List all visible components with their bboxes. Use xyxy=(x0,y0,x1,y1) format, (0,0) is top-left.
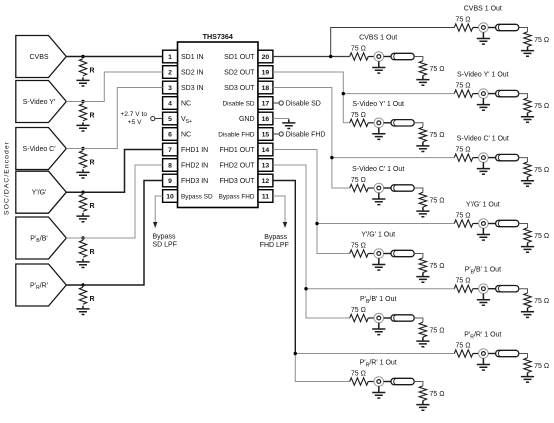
resistor R (CVBS input termination) xyxy=(79,59,86,76)
wire cable to load (inner S-Video C' 1 Out) xyxy=(414,188,423,192)
wire pin 18 to S-Video C' 1 Out branch xyxy=(273,88,332,158)
wire connector to cable (inner Y'/G' 1 Out) xyxy=(384,253,391,255)
connector jack (inner Y'/G' 1 Out) xyxy=(374,249,384,259)
svg-text:R: R xyxy=(90,113,95,120)
ground (load outer CVBS 1 Out) xyxy=(521,47,534,57)
svg-text:+5 V: +5 V xyxy=(128,119,142,126)
ground (load outer Y'/G' 1 Out) xyxy=(521,243,534,253)
ground (load inner P'R/R' 1 Out) xyxy=(416,401,429,411)
resistor 75 Ohm series (inner Y'/G' 1 Out) xyxy=(350,250,369,257)
wire resistor to connector (outer CVBS 1 Out) xyxy=(473,27,479,29)
svg-text:SD2 IN: SD2 IN xyxy=(181,70,204,77)
wire connector to cable (inner P'B/B' 1 Out) xyxy=(384,317,391,319)
svg-text:CVBS 1 Out: CVBS 1 Out xyxy=(464,6,502,13)
svg-text:15: 15 xyxy=(262,132,270,139)
svg-text:75 Ω: 75 Ω xyxy=(351,371,366,378)
wire pin 12 to P'R/R' 1 Out branch xyxy=(273,181,295,354)
resistor R (S-Video Y' input termination) xyxy=(79,104,86,121)
wire cable to load (inner CVBS 1 Out) xyxy=(414,57,423,61)
svg-text:20: 20 xyxy=(262,54,270,61)
resistor R (S-Video C' input termination) xyxy=(79,151,86,168)
svg-text:Y′/G′: Y′/G′ xyxy=(32,190,47,197)
power supply node +2.7V to +5V xyxy=(151,116,155,120)
wire pin 10 Bypass SD LPF arrow xyxy=(155,196,162,223)
svg-text:NC: NC xyxy=(181,101,191,108)
node branch P'R/R' 1 Out xyxy=(294,352,297,355)
svg-text:13: 13 xyxy=(262,163,270,170)
svg-text:75 Ω: 75 Ω xyxy=(534,363,549,370)
wire inner feed P'B/B' 1 Out xyxy=(306,289,350,318)
connector jack (outer P'B/B' 1 Out) xyxy=(479,284,489,294)
resistor 75 Ohm series (outer Y'/G' 1 Out) xyxy=(454,220,473,227)
connector jack (outer P'R/R' 1 Out) xyxy=(479,349,489,359)
svg-text:11: 11 xyxy=(262,194,269,201)
resistor 75 Ohm series (inner S-Video Y' 1 Out) xyxy=(350,119,369,126)
svg-text:3: 3 xyxy=(168,85,172,92)
svg-text:SD LPF: SD LPF xyxy=(153,241,178,248)
svg-text:7: 7 xyxy=(168,147,172,154)
wire connector to cable (outer P'R/R' 1 Out) xyxy=(488,353,495,355)
wire pin 14 to Y'/G' 1 Out branch xyxy=(273,150,317,224)
svg-text:FHD3 OUT: FHD3 OUT xyxy=(220,178,256,185)
ground (S-Video Y' input termination) xyxy=(76,122,89,131)
wire connector to cable (outer S-Video Y' 1 Out) xyxy=(488,93,495,95)
svg-text:S-Video C′: S-Video C′ xyxy=(22,146,56,153)
DAC output pentagon S-Video Y' xyxy=(16,81,67,123)
DAC output pentagon P'B/B' xyxy=(16,217,67,259)
resistor 75 Ohm load (inner S-Video Y' 1 Out) xyxy=(419,127,426,142)
pin 8 box (FHD2 IN) xyxy=(163,159,178,172)
connector jack (outer Y'/G' 1 Out) xyxy=(479,219,489,229)
resistor 75 Ohm load (inner S-Video C' 1 Out) xyxy=(419,192,426,207)
svg-text:19: 19 xyxy=(262,70,270,77)
svg-text:75 Ω: 75 Ω xyxy=(456,147,471,154)
wire resistor to connector (outer S-Video C' 1 Out) xyxy=(473,157,479,159)
Disable FHD terminal circle xyxy=(279,132,283,136)
wire cable to load (outer CVBS 1 Out) xyxy=(519,28,528,32)
wire inner feed P'R/R' 1 Out xyxy=(295,354,349,382)
svg-text:Y′/G′ 1 Out: Y′/G′ 1 Out xyxy=(361,232,395,239)
wire outer feed S-Video C' 1 Out xyxy=(332,157,454,159)
svg-text:S-Video C′ 1 Out: S-Video C′ 1 Out xyxy=(457,136,509,143)
svg-text:SD3 IN: SD3 IN xyxy=(181,85,204,92)
wire pin 15 to Disable FHD terminal xyxy=(273,133,279,135)
svg-text:GND: GND xyxy=(239,116,255,123)
pin 13 box (FHD2 OUT) xyxy=(258,159,273,172)
coax cable (outer S-Video C' 1 Out) xyxy=(496,154,519,160)
wire resistor to connector (inner S-Video C' 1 Out) xyxy=(368,187,374,189)
ground (connector shield inner Y'/G' 1 Out) xyxy=(372,258,385,270)
ground (connector shield inner P'R/R' 1 Out) xyxy=(372,386,385,398)
svg-text:FHD2 IN: FHD2 IN xyxy=(181,163,208,170)
svg-text:75 Ω: 75 Ω xyxy=(351,112,366,119)
connector jack (inner P'B/B' 1 Out) xyxy=(374,313,384,323)
DAC output pentagon Y'/G' xyxy=(16,171,67,213)
resistor 75 Ohm load (outer P'R/R' 1 Out) xyxy=(524,358,531,373)
resistor 75 Ohm load (inner Y'/G' 1 Out) xyxy=(419,258,426,273)
wire inner feed S-Video Y' 1 Out xyxy=(343,94,349,123)
ground (connector shield outer Y'/G' 1 Out) xyxy=(477,228,490,240)
resistor 75 Ohm series (inner S-Video C' 1 Out) xyxy=(350,184,369,191)
wire resistor to connector (inner P'R/R' 1 Out) xyxy=(368,381,374,383)
wire cable to load (outer Y'/G' 1 Out) xyxy=(519,224,528,228)
svg-text:5: 5 xyxy=(168,116,172,123)
node Y'/G' junction xyxy=(81,191,84,194)
pin 11 box (Bypass FHD) xyxy=(258,190,273,203)
wire outer feed S-Video Y' 1 Out xyxy=(343,93,454,95)
svg-text:10: 10 xyxy=(166,194,174,201)
ground (load inner P'B/B' 1 Out) xyxy=(416,337,429,347)
svg-text:Y′/G′ 1 Out: Y′/G′ 1 Out xyxy=(466,202,500,209)
svg-text:SOC/DAC/Encoder: SOC/DAC/Encoder xyxy=(4,141,11,215)
connector jack (outer CVBS 1 Out) xyxy=(479,23,489,33)
DAC output pentagon P'R/R' xyxy=(16,264,67,306)
resistor 75 Ohm load (inner P'R/R' 1 Out) xyxy=(419,386,426,401)
svg-text:Disable SD: Disable SD xyxy=(286,101,321,108)
node P'R/R' junction xyxy=(81,283,84,286)
wire pin 17 to Disable SD terminal xyxy=(273,102,279,104)
wire cable to load (outer S-Video Y' 1 Out) xyxy=(519,94,528,98)
wire cable to load (outer S-Video C' 1 Out) xyxy=(519,158,528,162)
wire S-Video Y' to pin 2 xyxy=(66,72,162,102)
svg-text:FHD LPF: FHD LPF xyxy=(260,242,289,249)
coax cable (inner P'B/B' 1 Out) xyxy=(391,315,414,321)
ground (connector shield inner S-Video Y' 1 Out) xyxy=(372,128,385,140)
ground (P'B/B' input termination) xyxy=(76,259,89,268)
wire pin 20 to CVBS 1 Out branch xyxy=(273,56,350,58)
svg-text:R: R xyxy=(90,160,95,167)
wire connector to cable (outer S-Video C' 1 Out) xyxy=(488,157,495,159)
svg-text:R: R xyxy=(90,296,95,303)
resistor 75 Ohm load (outer S-Video C' 1 Out) xyxy=(524,162,531,177)
pin 3 box (SD3 IN) xyxy=(163,81,178,94)
ground (load outer S-Video Y' 1 Out) xyxy=(521,113,534,123)
wire resistor to connector (outer P'B/B' 1 Out) xyxy=(473,288,479,290)
svg-text:S-Video Y′ 1 Out: S-Video Y′ 1 Out xyxy=(352,101,404,108)
svg-text:FHD1 OUT: FHD1 OUT xyxy=(220,147,256,154)
wire cable to load (inner Y'/G' 1 Out) xyxy=(414,254,423,258)
svg-text:SD3 OUT: SD3 OUT xyxy=(224,85,255,92)
ground (connector shield outer P'B/B' 1 Out) xyxy=(477,294,490,306)
wire CVBS to pin 1 xyxy=(66,56,162,58)
ground (GND pin 16) xyxy=(282,120,295,129)
resistor 75 Ohm load (outer S-Video Y' 1 Out) xyxy=(524,98,531,113)
pin 19 box (SD2 OUT) xyxy=(258,66,273,79)
coax cable (outer CVBS 1 Out) xyxy=(496,24,519,30)
coax cable (inner S-Video C' 1 Out) xyxy=(391,185,414,191)
svg-text:2: 2 xyxy=(168,70,172,77)
wire cable to load (inner P'R/R' 1 Out) xyxy=(414,382,423,386)
resistor 75 Ohm series (inner P'R/R' 1 Out) xyxy=(350,378,369,385)
coax cable (outer S-Video Y' 1 Out) xyxy=(496,90,519,96)
resistor 75 Ohm series (outer CVBS 1 Out) xyxy=(454,24,473,31)
resistor R (Y'/G' input termination) xyxy=(79,194,86,211)
svg-text:SD1 OUT: SD1 OUT xyxy=(224,54,255,61)
ground (load inner Y'/G' 1 Out) xyxy=(416,273,429,283)
svg-text:1: 1 xyxy=(168,54,172,61)
pin 14 box (FHD1 OUT) xyxy=(258,143,273,156)
svg-text:12: 12 xyxy=(262,178,270,185)
wire outer feed Y'/G' 1 Out xyxy=(317,223,454,225)
connector jack (outer S-Video C' 1 Out) xyxy=(479,153,489,163)
ground (load inner S-Video C' 1 Out) xyxy=(416,207,429,217)
pin 1 box (SD1 IN) xyxy=(163,50,178,63)
svg-text:75 Ω: 75 Ω xyxy=(351,46,366,53)
coax cable (outer P'R/R' 1 Out) xyxy=(496,350,519,356)
ground (connector shield outer S-Video C' 1 Out) xyxy=(477,162,490,174)
pin 6 box (NC) xyxy=(163,128,178,141)
svg-text:SD2 OUT: SD2 OUT xyxy=(224,70,255,77)
wire resistor to connector (outer S-Video Y' 1 Out) xyxy=(473,93,479,95)
svg-text:75 Ω: 75 Ω xyxy=(456,83,471,90)
svg-text:+2.7 V to: +2.7 V to xyxy=(120,111,147,118)
pin 12 box (FHD3 OUT) xyxy=(258,174,273,187)
connector jack (outer S-Video Y' 1 Out) xyxy=(479,89,489,99)
svg-text:17: 17 xyxy=(262,101,270,108)
svg-text:Bypass: Bypass xyxy=(153,234,176,241)
wire connector to cable (inner S-Video C' 1 Out) xyxy=(384,187,391,189)
ground (load inner S-Video Y' 1 Out) xyxy=(416,142,429,152)
svg-text:75 Ω: 75 Ω xyxy=(534,298,549,305)
svg-text:75 Ω: 75 Ω xyxy=(351,177,366,184)
wire resistor to connector (inner Y'/G' 1 Out) xyxy=(368,253,374,255)
resistor 75 Ohm series (outer P'B/B' 1 Out) xyxy=(454,285,473,292)
pin 15 box (Disable FHD) xyxy=(258,128,273,141)
ground (connector shield outer CVBS 1 Out) xyxy=(477,32,490,44)
ground (load outer P'B/B' 1 Out) xyxy=(521,308,534,318)
svg-text:Disable FHD: Disable FHD xyxy=(218,132,255,139)
ground (connector shield inner S-Video C' 1 Out) xyxy=(372,193,385,205)
wire cable to load (outer P'R/R' 1 Out) xyxy=(519,354,528,358)
svg-text:THS7364: THS7364 xyxy=(203,32,233,41)
svg-text:75 Ω: 75 Ω xyxy=(456,343,471,350)
svg-text:Disable FHD: Disable FHD xyxy=(286,132,326,139)
ground (Y'/G' input termination) xyxy=(76,213,89,222)
wire pin 19 to S-Video Y' 1 Out branch xyxy=(273,72,343,94)
pin 20 box (SD1 OUT) xyxy=(258,50,273,63)
wire resistor to connector (inner P'B/B' 1 Out) xyxy=(368,317,374,319)
wire S-Video C' to pin 3 xyxy=(66,88,162,149)
wire pin 16 to ground xyxy=(273,119,289,120)
node branch P'B/B' 1 Out xyxy=(304,287,307,290)
coax cable (inner S-Video Y' 1 Out) xyxy=(391,120,414,126)
svg-text:75 Ω: 75 Ω xyxy=(456,17,471,24)
svg-text:FHD1 IN: FHD1 IN xyxy=(181,147,208,154)
svg-text:75 Ω: 75 Ω xyxy=(456,213,471,220)
resistor 75 Ohm load (outer Y'/G' 1 Out) xyxy=(524,228,531,243)
wire connector to cable (outer P'B/B' 1 Out) xyxy=(488,288,495,290)
ground (load outer S-Video C' 1 Out) xyxy=(521,177,534,187)
svg-text:14: 14 xyxy=(262,147,270,154)
wire connector to cable (inner P'R/R' 1 Out) xyxy=(384,381,391,383)
wire resistor to connector (outer P'R/R' 1 Out) xyxy=(473,353,479,355)
node S-Video C' junction xyxy=(81,147,84,150)
svg-text:18: 18 xyxy=(262,85,270,92)
svg-text:NC: NC xyxy=(181,132,191,139)
svg-text:75 Ω: 75 Ω xyxy=(430,391,445,398)
connector jack (inner S-Video C' 1 Out) xyxy=(374,183,384,193)
wire resistor to connector (inner S-Video Y' 1 Out) xyxy=(368,122,374,124)
svg-text:75 Ω: 75 Ω xyxy=(534,103,549,110)
svg-text:FHD2 OUT: FHD2 OUT xyxy=(220,163,256,170)
svg-text:4: 4 xyxy=(168,101,172,108)
svg-text:FHD3 IN: FHD3 IN xyxy=(181,178,208,185)
wire cable to load (inner S-Video Y' 1 Out) xyxy=(414,123,423,127)
node branch Y'/G' 1 Out xyxy=(315,222,318,225)
svg-text:Bypass FHD: Bypass FHD xyxy=(219,194,255,201)
op-amp / video amplifier U1 THS7364 body xyxy=(178,42,259,208)
pin 5 box (VS) xyxy=(163,112,178,125)
pin 16 box (GND) xyxy=(258,112,273,125)
resistor 75 Ohm series (outer S-Video C' 1 Out) xyxy=(454,154,473,161)
ground (load outer P'R/R' 1 Out) xyxy=(521,373,534,383)
svg-text:75 Ω: 75 Ω xyxy=(351,243,366,250)
svg-text:6: 6 xyxy=(168,132,172,139)
svg-text:75 Ω: 75 Ω xyxy=(534,167,549,174)
wire resistor to connector (outer Y'/G' 1 Out) xyxy=(473,223,479,225)
svg-text:75 Ω: 75 Ω xyxy=(430,66,445,73)
ground (connector shield outer S-Video Y' 1 Out) xyxy=(477,98,490,110)
resistor 75 Ohm series (inner CVBS 1 Out) xyxy=(350,53,369,60)
wire connector to cable (outer Y'/G' 1 Out) xyxy=(488,223,495,225)
svg-text:CVBS 1 Out: CVBS 1 Out xyxy=(359,35,397,42)
pin 10 box (Bypass SD) xyxy=(163,190,178,203)
resistor R (P'B/B' input termination) xyxy=(79,240,86,257)
pin 18 box (SD3 OUT) xyxy=(258,81,273,94)
coax cable (inner P'R/R' 1 Out) xyxy=(391,378,414,384)
svg-text:16: 16 xyxy=(262,116,270,123)
node branch S-Video Y' 1 Out xyxy=(342,92,345,95)
svg-text:75 Ω: 75 Ω xyxy=(430,327,445,334)
pin 7 box (FHD1 IN) xyxy=(163,143,178,156)
svg-text:S-Video Y′ 1 Out: S-Video Y′ 1 Out xyxy=(457,72,509,79)
resistor 75 Ohm load (outer P'B/B' 1 Out) xyxy=(524,293,531,308)
resistor 75 Ohm load (outer CVBS 1 Out) xyxy=(524,32,531,47)
wire inner feed S-Video C' 1 Out xyxy=(332,158,350,188)
node S-Video Y' junction xyxy=(81,100,84,103)
connector jack (inner P'R/R' 1 Out) xyxy=(374,377,384,387)
svg-text:R: R xyxy=(90,203,95,210)
resistor 75 Ohm load (inner CVBS 1 Out) xyxy=(419,61,426,76)
wire P'B/B' to pin 8 xyxy=(66,165,162,238)
svg-text:75 Ω: 75 Ω xyxy=(534,233,549,240)
wire P'R/R' to pin 9 xyxy=(66,181,162,286)
svg-text:75 Ω: 75 Ω xyxy=(430,197,445,204)
Disable SD terminal circle xyxy=(279,101,283,105)
wire pin 11 Bypass FHD LPF arrow xyxy=(273,196,285,223)
node branch S-Video C' 1 Out xyxy=(330,156,333,159)
coax cable (inner Y'/G' 1 Out) xyxy=(391,250,414,256)
ground (CVBS input termination) xyxy=(76,77,89,86)
wire Y'/G' to pin 7 xyxy=(66,150,162,193)
resistor 75 Ohm series (inner P'B/B' 1 Out) xyxy=(350,314,369,321)
pin 4 box (NC) xyxy=(163,97,178,110)
wire connector to cable (outer CVBS 1 Out) xyxy=(488,27,495,29)
coax cable (outer Y'/G' 1 Out) xyxy=(496,220,519,226)
svg-text:Disable SD: Disable SD xyxy=(223,101,255,108)
DAC output pentagon S-Video C' xyxy=(16,128,67,170)
wire cable to load (outer P'B/B' 1 Out) xyxy=(519,289,528,293)
coax cable (inner CVBS 1 Out) xyxy=(391,53,414,59)
node P'B/B' junction xyxy=(81,236,84,239)
wire resistor to connector (inner CVBS 1 Out) xyxy=(368,56,374,58)
ground (load inner CVBS 1 Out) xyxy=(416,76,429,86)
svg-text:Bypass: Bypass xyxy=(264,234,287,241)
svg-text:R: R xyxy=(90,68,95,75)
resistor R (P'R/R' input termination) xyxy=(79,287,86,304)
svg-text:75 Ω: 75 Ω xyxy=(456,278,471,285)
wire inner feed Y'/G' 1 Out xyxy=(317,224,350,254)
svg-text:S-Video Y′: S-Video Y′ xyxy=(23,99,56,106)
pin 17 box (Disable SD) xyxy=(258,97,273,110)
pin 9 box (FHD3 IN) xyxy=(163,174,178,187)
connector jack (inner CVBS 1 Out) xyxy=(374,52,384,62)
connector jack (inner S-Video Y' 1 Out) xyxy=(374,118,384,128)
wire pin 13 to P'B/B' 1 Out branch xyxy=(273,165,306,289)
ground (connector shield inner CVBS 1 Out) xyxy=(372,61,385,73)
resistor 75 Ohm series (outer P'R/R' 1 Out) xyxy=(454,350,473,357)
svg-text:75 Ω: 75 Ω xyxy=(430,132,445,139)
wire cable to load (inner P'B/B' 1 Out) xyxy=(414,318,423,322)
svg-text:CVBS: CVBS xyxy=(29,54,48,61)
ground (connector shield outer P'R/R' 1 Out) xyxy=(477,358,490,370)
wire branch up to outer CVBS 1 Out xyxy=(331,28,455,57)
svg-text:R: R xyxy=(90,249,95,256)
resistor 75 Ohm load (inner P'B/B' 1 Out) xyxy=(419,322,426,337)
coax cable (outer P'B/B' 1 Out) xyxy=(496,286,519,292)
node branch CVBS 1 Out xyxy=(329,55,332,58)
svg-text:Bypass SD: Bypass SD xyxy=(181,194,213,201)
svg-text:75 Ω: 75 Ω xyxy=(534,37,549,44)
wire connector to cable (inner S-Video Y' 1 Out) xyxy=(384,122,391,124)
svg-text:9: 9 xyxy=(168,178,172,185)
wire connector to cable (inner CVBS 1 Out) xyxy=(384,56,391,58)
svg-text:S-Video C′ 1 Out: S-Video C′ 1 Out xyxy=(352,166,404,173)
svg-text:SD1 IN: SD1 IN xyxy=(181,54,204,61)
wire outer feed P'R/R' 1 Out xyxy=(295,353,454,355)
ground (P'R/R' input termination) xyxy=(76,306,89,315)
resistor 75 Ohm series (outer S-Video Y' 1 Out) xyxy=(454,90,473,97)
svg-text:8: 8 xyxy=(168,163,172,170)
wire outer feed P'B/B' 1 Out xyxy=(306,288,454,290)
ground (S-Video C' input termination) xyxy=(76,169,89,178)
ground (connector shield inner P'B/B' 1 Out) xyxy=(372,323,385,335)
svg-text:75 Ω: 75 Ω xyxy=(430,263,445,270)
wire power to pin 5 xyxy=(155,118,163,120)
svg-text:75 Ω: 75 Ω xyxy=(351,307,366,314)
node CVBS junction xyxy=(81,55,84,58)
DAC output pentagon CVBS xyxy=(16,36,67,78)
pin 2 box (SD2 IN) xyxy=(163,66,178,79)
